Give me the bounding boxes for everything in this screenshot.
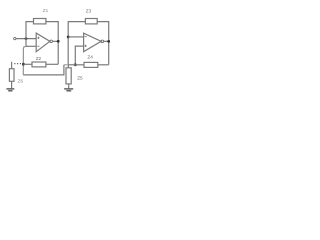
wire node C to resistor Z2 <box>23 63 32 65</box>
resistor Z5 lead top <box>67 65 69 68</box>
node C junction dot <box>22 63 25 66</box>
node D junction dot <box>107 40 110 43</box>
ground (right) <box>64 89 73 91</box>
resistor Z5 body <box>66 68 71 84</box>
resistor Z2 body <box>32 62 46 67</box>
resistor Z6 body <box>9 69 14 82</box>
wire U1 output to node B <box>52 40 58 42</box>
resistor Z4 body <box>84 62 98 67</box>
resistor Z5 lead bottom <box>68 84 70 88</box>
node E junction dot <box>74 63 77 66</box>
resistor Z1 body <box>34 19 46 24</box>
wire input to op-amp U1 + input <box>16 38 36 40</box>
op-amp U2 + symbol <box>85 45 87 47</box>
ground (left) <box>6 89 14 91</box>
dotted wire to resistor Z6 <box>14 63 21 65</box>
wire node A up to resistor Z1 left <box>26 22 34 47</box>
op-amp U1 triangle <box>36 33 50 52</box>
wire to op-amp U1 - input <box>26 45 36 47</box>
svg-text:Z3: Z3 <box>86 8 92 13</box>
op-amp U1 - symbol <box>37 45 39 47</box>
wire U2 + input down to node E <box>75 46 83 65</box>
op-amp U2 triangle <box>84 33 102 52</box>
op-amp U2 - symbol <box>85 36 87 38</box>
wire Z4 right to node D column <box>98 64 109 66</box>
op-amp U1 + symbol <box>37 37 39 39</box>
node B junction dot <box>57 40 60 43</box>
wire loop node C to node E <box>23 65 64 75</box>
node A junction dot <box>25 37 28 40</box>
resistor Z6 lead bottom <box>11 81 13 88</box>
wire to op-amp U2 - input <box>68 36 83 38</box>
wire Z3 left down C column <box>68 22 85 65</box>
input terminal <box>14 37 16 39</box>
svg-text:Z4: Z4 <box>87 55 93 60</box>
node at U2 - input junction dot <box>67 36 70 39</box>
op-amp U2 output bubble <box>101 40 104 43</box>
wire U2 output to node D <box>104 40 109 42</box>
wire node E row <box>64 64 69 66</box>
resistor Z3 body <box>85 19 97 24</box>
wire node A down to node C <box>23 46 26 75</box>
svg-text:Z1: Z1 <box>43 8 49 13</box>
op-amp U1 output bubble <box>50 40 53 43</box>
wire Z2 right to node B column <box>46 63 58 65</box>
wire Z3 right to node D <box>97 22 109 65</box>
wire Z1 right down to node B <box>46 22 58 65</box>
svg-text:Z5: Z5 <box>77 75 83 80</box>
svg-text:Z2: Z2 <box>36 56 42 61</box>
resistor Z6 lead top <box>11 62 13 69</box>
svg-text:Z6: Z6 <box>18 78 24 83</box>
